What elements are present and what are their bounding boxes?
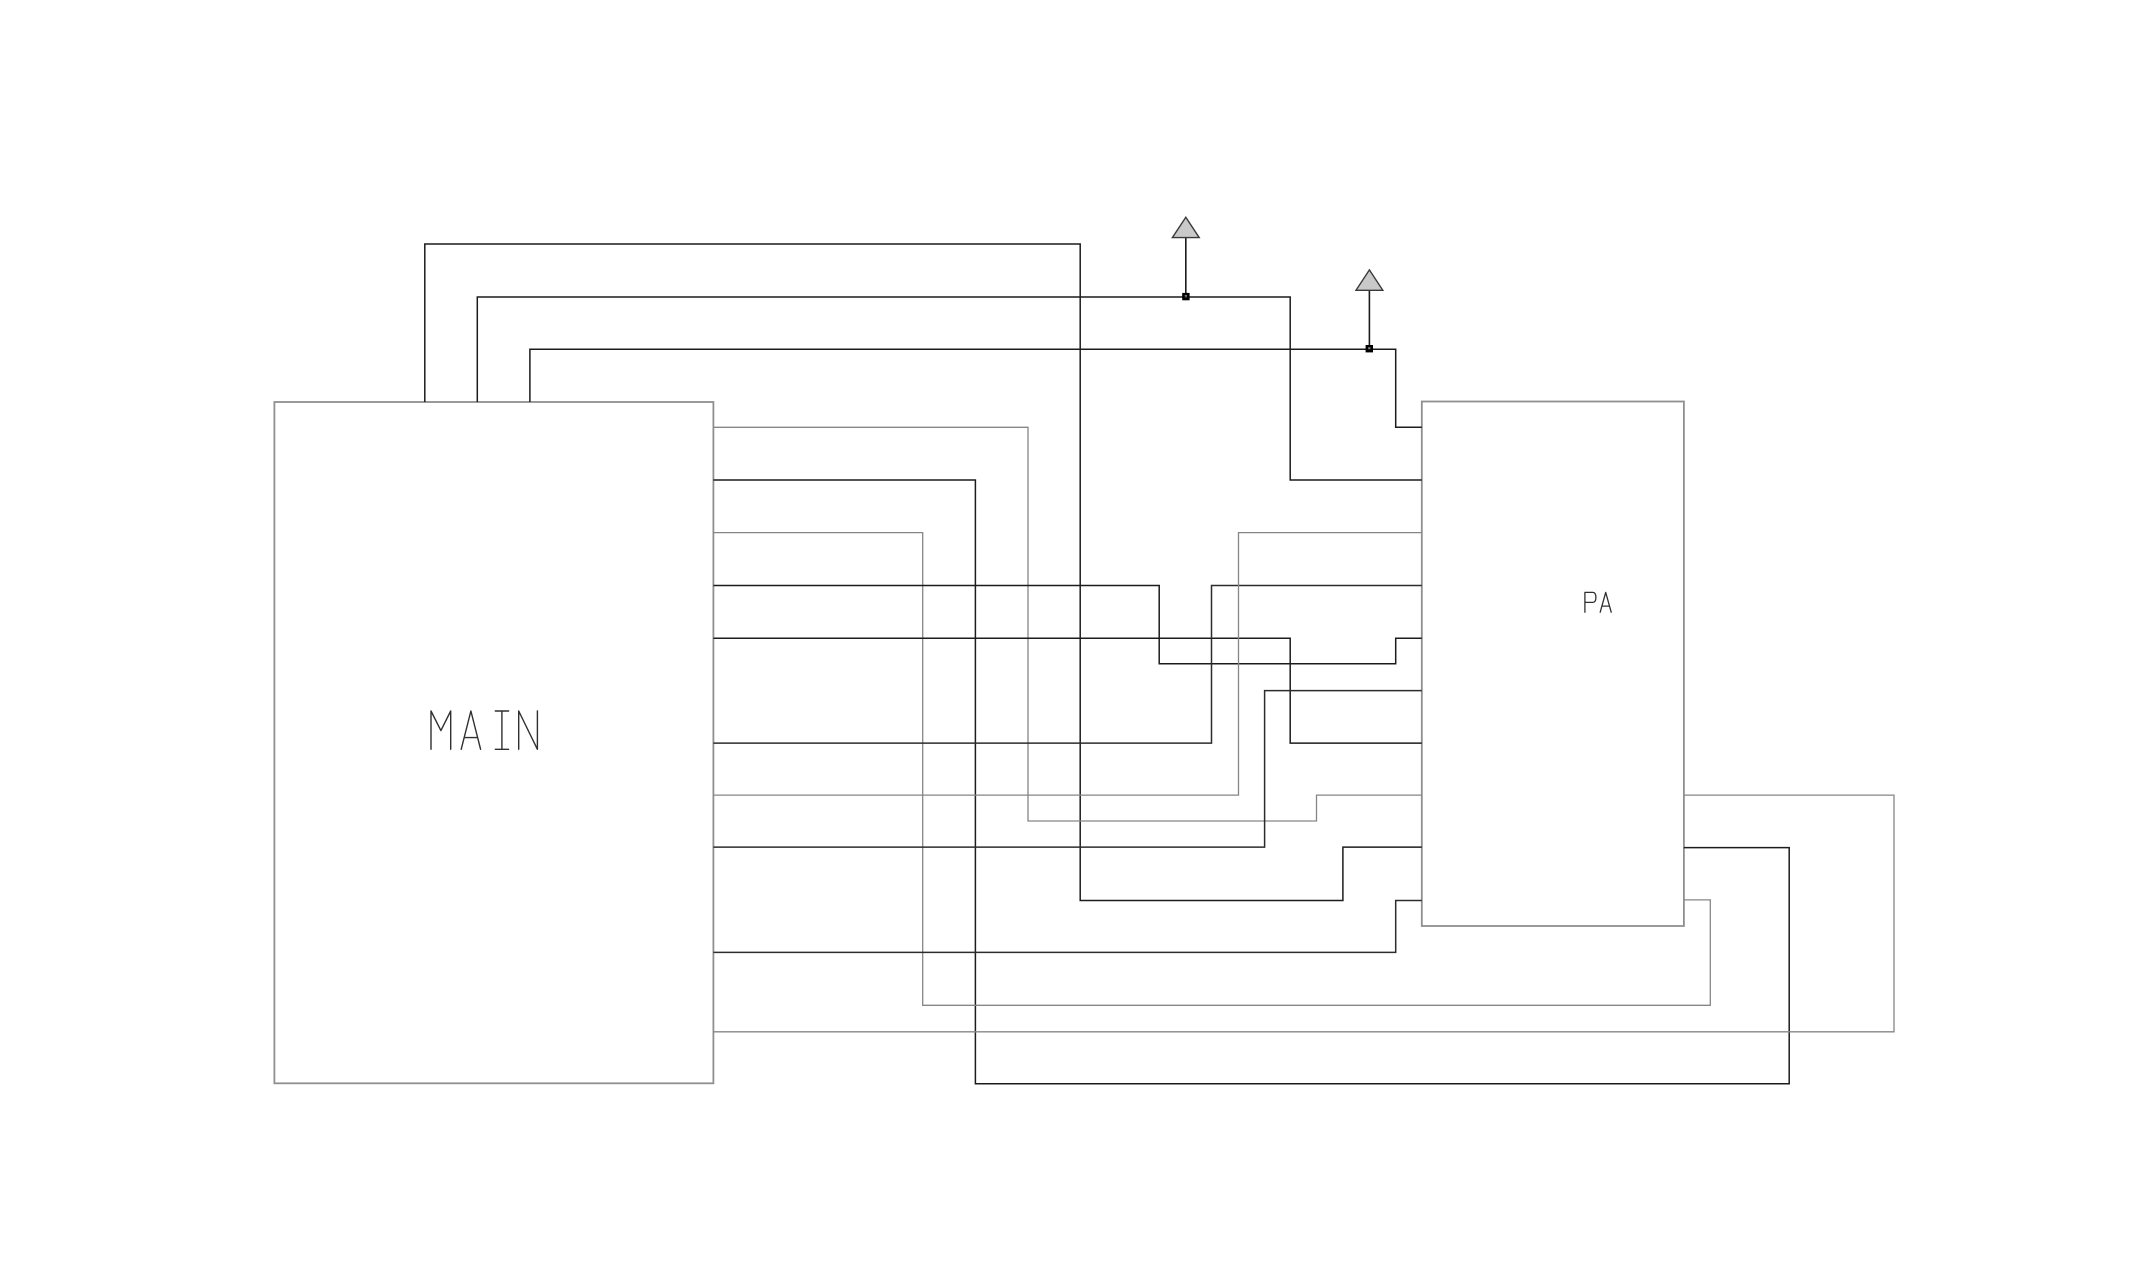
antenna ANT1 [1172,217,1199,293]
wire net8 MAIN.R4 -> PA.L6 [713,638,1421,743]
wire net7 MAIN.R3 -> PA.L4 [713,586,1421,664]
port junction J1 [1184,294,1189,299]
block MAIN [274,402,713,1083]
wire net4 MAIN.R0 -> PA.L7 [713,427,1421,821]
wire net11 MAIN.R8 -> PA.L5 [713,691,1421,848]
wire net1 MAIN.top1 -> PA.L8 [425,244,1422,901]
block PA [1422,402,1684,927]
port junction J2 [1367,346,1372,351]
wire net13 MAIN.R10 -> PA.L9 [713,901,1421,953]
wire net6 MAIN.R2 -> PA.R9 [713,533,1710,1006]
wire net3 MAIN.top3 -> ANT2 -> PA.L0 [530,349,1422,427]
antenna ANT2 [1356,270,1383,345]
wire net9 MAIN.R6 -> PA.L3 [713,586,1421,744]
wire net10 MAIN.R7 -> PA.L2 [713,533,1421,796]
wire net5 MAIN.R1 -> PA.R8 [713,480,1789,1084]
wire net14 MAIN.R11 -> PA.R7 [713,795,1894,1032]
label PA [1585,592,1611,612]
wire net2 MAIN.top2 -> ANT1 -> PA.L1 [477,297,1422,480]
label MAIN [431,711,537,749]
